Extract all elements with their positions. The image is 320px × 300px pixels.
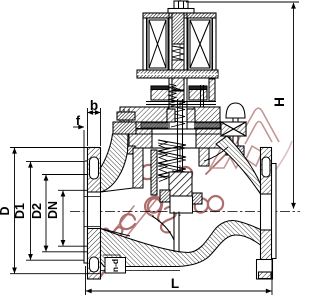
gland block right <box>189 86 207 100</box>
gasket dark band <box>120 122 220 129</box>
svg-text:D1: D1 <box>13 203 27 219</box>
solenoid core tube <box>168 13 170 104</box>
dim b <box>88 108 101 146</box>
dim H <box>186 2 299 209</box>
watermark loop seat left <box>148 198 161 212</box>
left hub band <box>101 134 129 192</box>
dim D1 <box>26 161 84 260</box>
n-d callout box <box>105 258 126 274</box>
dim f <box>73 127 84 160</box>
outlet bore top line <box>204 147 228 161</box>
plunger <box>172 60 184 90</box>
dim DN <box>58 190 88 246</box>
watermark chevron big inner <box>245 122 272 145</box>
svg-text:D2: D2 <box>30 203 44 219</box>
top cap <box>168 9 194 14</box>
left flange <box>84 148 101 280</box>
main spring <box>158 140 186 181</box>
seat left <box>160 190 170 202</box>
seat right <box>192 193 202 204</box>
cage wall right <box>199 148 209 166</box>
watermark chevron big outer <box>236 108 279 144</box>
watermark loop u <box>120 214 135 229</box>
valve plug <box>169 172 192 196</box>
watermark block glyph 2 <box>210 138 242 169</box>
dim D2 <box>42 175 88 252</box>
right hub band <box>216 136 261 194</box>
yoke plate lines <box>146 101 216 103</box>
watermark arc right <box>263 141 292 188</box>
cage column left inner <box>151 150 157 195</box>
fixed core hatched <box>172 13 184 44</box>
left bore lines <box>84 196 101 198</box>
cage wall left <box>133 148 143 188</box>
pilot tube through bonnet <box>168 104 170 129</box>
bracket strip right <box>209 79 215 101</box>
sump curve <box>152 216 174 240</box>
watermark diag stroke <box>206 152 228 174</box>
coil housing bottom plate <box>137 70 218 78</box>
gasket center gap <box>168 122 194 129</box>
hex nut on top <box>174 1 188 9</box>
svg-text:DN: DN <box>46 201 60 219</box>
watermark glyph top <box>196 54 212 70</box>
svg-text:D: D <box>0 206 12 215</box>
watermark loop seat right <box>195 198 208 212</box>
gland block left <box>151 86 169 100</box>
watermark strokes over plug <box>168 182 190 196</box>
body top flange <box>114 129 230 148</box>
dimension labels <box>0 97 287 291</box>
bonnet bolt left <box>113 109 136 154</box>
svg-text:b: b <box>90 98 98 113</box>
valve stem <box>177 99 179 174</box>
pilot tube right <box>200 85 202 107</box>
bottom flat line <box>101 270 180 272</box>
seat bore <box>170 196 193 213</box>
watermark stroke x <box>167 171 183 197</box>
svg-text:n-d: n-d <box>110 259 120 272</box>
bonnet bolt right <box>221 103 246 155</box>
svg-text:H: H <box>272 97 287 107</box>
pilot spring <box>169 84 176 104</box>
svg-text:L: L <box>171 276 179 291</box>
pilot spring lower <box>171 100 185 127</box>
vertical centerline <box>179 0 181 216</box>
watermark loop right-mid <box>208 196 223 211</box>
watermark letter m <box>92 227 122 246</box>
bottom wall band <box>101 221 261 267</box>
coil housing shell <box>143 13 216 74</box>
watermark marks bottom left <box>101 254 117 276</box>
dim L <box>86 259 273 295</box>
bonnet plate <box>120 107 220 122</box>
seat bridge lines <box>173 212 175 253</box>
right flange <box>257 148 277 280</box>
watermark connector strokes <box>96 200 156 253</box>
watermark loop a <box>145 197 162 221</box>
watermark group <box>92 54 292 276</box>
body interior white fills <box>84 130 277 279</box>
watermark block glyph 3 <box>246 146 262 166</box>
horizontal pipe centerline <box>70 211 300 213</box>
watermark loop s <box>161 207 176 232</box>
watermark loop mid <box>141 165 156 179</box>
core spring <box>172 46 184 60</box>
dim D <box>10 148 101 274</box>
coil winding left <box>147 18 168 70</box>
watermark loop upper <box>178 167 193 181</box>
spring seat blocks <box>167 109 175 122</box>
coil winding right <box>188 18 212 70</box>
coil housing top plate <box>143 13 216 18</box>
